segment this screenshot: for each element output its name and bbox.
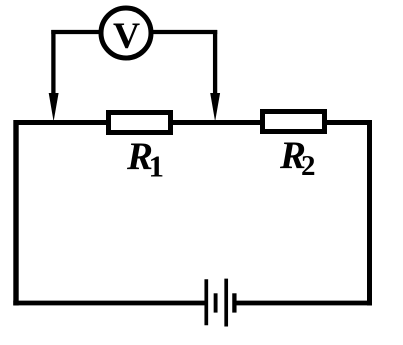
battery cell plate short right xyxy=(232,293,236,312)
battery cell plate long left xyxy=(204,279,208,325)
wire top side of loop xyxy=(14,120,373,125)
arrowhead right probe onto node B xyxy=(210,93,220,122)
wire right side of loop xyxy=(367,120,372,306)
battery cell plate short left xyxy=(214,293,218,312)
wire voltmeter left lead vertical xyxy=(51,30,55,100)
wire voltmeter right lead horizontal xyxy=(153,30,217,34)
wire voltmeter left lead horizontal xyxy=(51,30,99,34)
resistor R1 body xyxy=(109,113,171,133)
svg-text:V: V xyxy=(113,16,140,57)
arrowhead left probe onto node A xyxy=(49,93,59,122)
voltmeter U1 circle xyxy=(101,8,151,58)
battery cell plate long right xyxy=(224,279,228,327)
wire bottom-left segment to battery xyxy=(13,301,206,306)
wire voltmeter right lead vertical xyxy=(213,30,217,100)
wire bottom-right segment from battery xyxy=(234,301,372,306)
wire left side of loop xyxy=(13,120,18,306)
svg-text:2: 2 xyxy=(301,150,316,182)
resistor R2 body xyxy=(263,112,325,132)
svg-text:1: 1 xyxy=(149,149,165,184)
